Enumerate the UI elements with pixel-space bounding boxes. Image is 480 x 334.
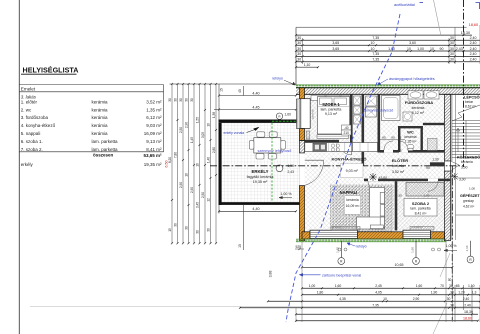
svg-text:gardrób: gardrób [311, 109, 315, 119]
wall bathroom left [378, 94, 381, 152]
svg-text:lefolyó: lefolyó [357, 245, 367, 249]
szoba2 radiator [428, 139, 438, 151]
thin leader diagonal top right [434, 0, 442, 36]
svg-text:7,35: 7,35 [372, 52, 379, 56]
svg-text:10,65: 10,65 [395, 263, 404, 267]
table frame [19, 84, 163, 86]
balcony chair right [281, 141, 286, 150]
svg-text:3,52 m²: 3,52 m² [392, 170, 405, 174]
szoba1 bench [317, 135, 349, 139]
svg-text:7,35: 7,35 [372, 304, 379, 308]
svg-text:1,60: 1,60 [416, 284, 423, 288]
svg-text:10: 10 [383, 297, 387, 301]
svg-text:ásványgyapot hőszigetelés: ásványgyapot hőszigetelés [389, 77, 435, 81]
svg-text:18,30: 18,30 [464, 310, 473, 314]
svg-text:8,41 m²: 8,41 m² [146, 147, 162, 152]
kitchen hob [331, 144, 334, 147]
bathroom sinks [408, 91, 423, 99]
svg-text:2,40: 2,40 [470, 36, 477, 40]
wall szoba1 bottom / kitchen top [305, 140, 340, 143]
svg-text:4,05: 4,05 [375, 291, 382, 295]
door gap nappali [368, 179, 378, 182]
svg-text:15: 15 [220, 88, 224, 92]
svg-text:30: 30 [168, 98, 172, 102]
svg-text:85: 85 [382, 136, 386, 140]
svg-text:1,00 %: 1,00 % [446, 244, 457, 248]
bottom dim line y=301.2 [268, 300, 480, 302]
balcony bottom edge [219, 202, 300, 205]
shaft strip walls [362, 94, 365, 166]
szoba1 wardrobe at wall [301, 99, 310, 129]
kitchen balcony door leaf+arc [305, 159, 324, 161]
svg-text:kerámia: kerámia [92, 131, 109, 136]
svg-text:Emelet: Emelet [21, 87, 36, 92]
wall nappali|szoba2 [395, 181, 398, 230]
svg-text:30: 30 [450, 52, 454, 56]
left cluster mid ticks [182, 159, 184, 161]
svg-text:7,80: 7,80 [174, 152, 178, 158]
svg-text:HELYISÉGLISTA: HELYISÉGLISTA [23, 65, 79, 74]
balcony top dim 4,40 [219, 95, 296, 97]
svg-text:30: 30 [297, 52, 301, 56]
svg-text:NAPPALI: NAPPALI [340, 190, 358, 195]
svg-text:65: 65 [456, 284, 460, 288]
balcony top drain circle [276, 113, 282, 119]
balcony floor [222, 123, 300, 203]
top dim extension verticals [295, 27, 297, 84]
left wall door kitchen-balcony gap [300, 153, 305, 186]
svg-text:greslap: greslap [463, 199, 474, 203]
svg-text:9,13 m²: 9,13 m² [325, 112, 338, 116]
svg-text:kerámia: kerámia [92, 115, 109, 120]
svg-text:2,43: 2,43 [288, 170, 295, 174]
svg-text:1,3: 1,3 [472, 291, 477, 295]
svg-text:3,52 m²: 3,52 m² [146, 99, 162, 104]
svg-text:70: 70 [440, 284, 444, 288]
balcony top wall [219, 120, 303, 123]
svg-text:1,10: 1,10 [304, 63, 311, 67]
svg-text:ELŐTÉR: ELŐTÉR [392, 158, 408, 163]
svg-text:3,00: 3,00 [459, 178, 466, 182]
svg-text:3. fürdőszoba: 3. fürdőszoba [21, 115, 49, 120]
svg-text:1. előtér: 1. előtér [21, 99, 38, 104]
nappali radiator [332, 227, 360, 231]
svg-text:1,60: 1,60 [285, 113, 292, 117]
svg-text:30: 30 [179, 98, 183, 102]
svg-text:19,35 m²: 19,35 m² [144, 162, 162, 167]
svg-text:90: 90 [440, 47, 444, 51]
kitchen counter extension right [353, 143, 378, 152]
svg-text:1,40: 1,40 [207, 157, 211, 163]
svg-text:15: 15 [238, 244, 242, 248]
szoba2 bed [406, 183, 444, 197]
right wall entry door gap [445, 161, 451, 171]
svg-text:2,80: 2,80 [212, 147, 216, 153]
svg-text:30: 30 [185, 226, 189, 230]
wall bathroom bottom right part [423, 123, 445, 125]
top insulation green band [296, 85, 480, 88]
svg-text:1,10: 1,10 [468, 284, 475, 288]
svg-text:GÉPÉSZET: GÉPÉSZET [460, 193, 480, 198]
vertical dash-dot boundary lower [451, 166, 453, 320]
svg-text:erkély vonala: erkély vonala [224, 131, 245, 135]
svg-text:10: 10 [371, 47, 375, 51]
parquet floor szoba2 [398, 181, 445, 230]
svg-text:15: 15 [168, 228, 172, 232]
left wall window szoba1-balcony [297, 99, 302, 129]
bottom dim 18,60 red [296, 320, 478, 322]
blue corner glyph left [420, 2, 424, 4]
svg-text:2,90: 2,90 [179, 182, 183, 188]
svg-text:10: 10 [430, 47, 434, 51]
rain pipe markers [340, 241, 342, 258]
svg-text:1,35 m²: 1,35 m² [146, 107, 162, 112]
wall szoba1 right [350, 94, 353, 142]
bottom exterior wall piers (brick) [302, 232, 310, 239]
svg-text:16,09 m²: 16,09 m² [144, 131, 162, 136]
svg-text:szennyvíz lefolyócső: szennyvíz lefolyócső [363, 109, 393, 113]
svg-text:FÜRDŐSZOBA: FÜRDŐSZOBA [405, 100, 433, 105]
svg-text:30: 30 [450, 58, 454, 62]
svg-text:1,60: 1,60 [410, 247, 414, 253]
svg-text:1,45: 1,45 [190, 137, 194, 143]
svg-text:3,88: 3,88 [269, 271, 273, 278]
top dim line y=56.4 [296, 55, 480, 57]
svg-text:1,00 %: 1,00 % [280, 192, 292, 196]
svg-text:10: 10 [371, 41, 375, 45]
svg-text:2,90: 2,90 [185, 122, 189, 128]
svg-text:210: 210 [344, 131, 350, 135]
svg-text:3,45: 3,45 [196, 202, 200, 208]
svg-text:beton: beton [465, 100, 473, 104]
balcony chairs top [257, 132, 265, 137]
svg-text:4,35: 4,35 [339, 297, 346, 301]
svg-text:kerámia: kerámia [92, 123, 109, 128]
svg-text:kerámia: kerámia [346, 198, 359, 202]
wc bowl [407, 144, 414, 149]
svg-text:10: 10 [407, 47, 411, 51]
level mark +3,00 nappali [369, 173, 377, 181]
svg-text:1,38: 1,38 [212, 112, 216, 118]
left dim cluster horizontal extension [170, 83, 297, 85]
thin diagonal wisp lines right [440, 253, 450, 277]
svg-text:KÖZLEKEDŐ: KÖZLEKEDŐ [457, 155, 480, 160]
svg-text:1,60: 1,60 [335, 284, 342, 288]
svg-text:1,60: 1,60 [388, 47, 395, 51]
svg-text:1,90: 1,90 [431, 291, 438, 295]
washing machine [403, 112, 412, 121]
wall wc left/right [398, 126, 400, 152]
svg-text:2,40: 2,40 [470, 47, 477, 51]
svg-text:1,80: 1,80 [317, 291, 324, 295]
right wall [445, 94, 451, 161]
balcony top dim 4,45 [214, 109, 296, 111]
svg-text:1,65: 1,65 [349, 101, 353, 107]
door gap szoba2 [428, 179, 438, 182]
svg-text:SZOBA 1: SZOBA 1 [322, 102, 340, 107]
svg-text:3,65: 3,65 [332, 41, 339, 45]
balcony table [254, 138, 281, 153]
shaft boxes [354, 96, 361, 105]
top dim line y=51.0 [296, 50, 480, 52]
svg-text:5. nappali: 5. nappali [21, 131, 41, 136]
svg-text:lam. parketta: lam. parketta [92, 139, 119, 144]
svg-text:lam. parketta: lam. parketta [321, 107, 342, 111]
svg-text:90: 90 [426, 166, 430, 170]
svg-text:2,43: 2,43 [456, 47, 463, 51]
balcony drain circle [276, 165, 283, 172]
balcony green dashed line on top wall [272, 120, 302, 122]
long faint ground line [30, 306, 480, 308]
bottom dim line y=294.7 [302, 294, 480, 296]
svg-text:szennyvíz lefolyócső: szennyvíz lefolyócső [258, 149, 292, 153]
svg-text:lefolyó: lefolyó [273, 76, 283, 80]
wall wc top [398, 126, 423, 128]
svg-text:kerámia: kerámia [392, 164, 404, 168]
svg-text:30: 30 [185, 98, 189, 102]
svg-text:53,65 m²: 53,65 m² [143, 153, 162, 158]
bottom dim line y=288.2 [302, 287, 480, 289]
svg-text:fagyálló kerámia: fagyálló kerámia [247, 175, 275, 179]
blue dashed drain line [286, 14, 400, 322]
szoba1 door arc [339, 142, 352, 155]
svg-text:7. szoba 2.: 7. szoba 2. [21, 147, 43, 152]
horizontal dash-dot section line [210, 165, 464, 167]
svg-text:10: 10 [196, 163, 200, 167]
svg-text:1,00: 1,00 [417, 47, 424, 51]
svg-text:3,60: 3,60 [409, 41, 416, 45]
bathroom tub [382, 96, 401, 121]
svg-text:90: 90 [391, 136, 395, 140]
table sum line [19, 151, 163, 153]
szoba2 label box [404, 199, 437, 217]
kitchen counter [305, 143, 352, 152]
top dim line y=45.2 [296, 44, 480, 46]
svg-text:SZOBA 2: SZOBA 2 [412, 201, 430, 206]
svg-text:2,45: 2,45 [375, 284, 382, 288]
svg-text:lam. parketta: lam. parketta [410, 207, 430, 211]
szoba1 radiator [306, 131, 310, 139]
svg-text:LÉPCSŐH.: LÉPCSŐH. [464, 95, 480, 100]
staircase break line [452, 105, 480, 121]
balcony bottom extension vertical [242, 205, 244, 250]
bottom extension verticals [301, 241, 303, 322]
svg-text:1,20: 1,20 [458, 291, 465, 295]
top dim line 18,60 [296, 26, 467, 28]
parquet floor szoba1 [305, 94, 351, 142]
bottom wall window szoba2 [403, 230, 431, 238]
svg-text:30: 30 [174, 223, 178, 227]
svg-text:10: 10 [185, 173, 189, 177]
svg-text:+3,00: +3,00 [379, 176, 388, 180]
svg-text:acélkorláttal: acélkorláttal [394, 2, 415, 7]
balcony bottom dim 4,40 [219, 210, 296, 212]
left wall hatched pillar [300, 141, 305, 154]
svg-text:lam. parketta: lam. parketta [92, 147, 119, 152]
svg-text:4,62 m²: 4,62 m² [463, 205, 475, 209]
svg-text:4,40: 4,40 [252, 207, 259, 211]
svg-text:30: 30 [196, 230, 200, 234]
svg-text:2,50: 2,50 [201, 192, 205, 198]
page left border line [18, 0, 20, 334]
balcony left wall [219, 123, 222, 205]
svg-text:30: 30 [450, 304, 454, 308]
svg-text:6,12 m²: 6,12 m² [412, 111, 425, 115]
svg-text:30: 30 [450, 291, 454, 295]
level mark +3,00 kozlekedo [451, 173, 458, 180]
svg-text:4,40: 4,40 [252, 91, 259, 95]
bottom dim line y=307.7 [240, 307, 480, 309]
svg-text:18,30: 18,30 [461, 31, 470, 35]
top exterior wall [296, 88, 480, 95]
svg-text:2,40: 2,40 [470, 52, 477, 56]
svg-text:30: 30 [297, 36, 301, 40]
kitchen sink dark unit [313, 143, 327, 151]
svg-text:5: 5 [400, 136, 402, 140]
staircase side wall line [451, 94, 453, 161]
balcony green dashed vertical line [271, 123, 273, 203]
svg-text:zártsorú beépítési vonal: zártsorú beépítési vonal [322, 273, 361, 277]
bathroom left cabinets/shafts [366, 96, 377, 106]
svg-text:4,45: 4,45 [252, 105, 259, 109]
svg-text:12: 12 [207, 198, 211, 202]
nappali screed stipple [330, 185, 394, 232]
svg-text:8,62 m²: 8,62 m² [465, 105, 477, 109]
svg-text:19,35 m²: 19,35 m² [253, 180, 268, 184]
left dim cluster verticals [171, 84, 173, 243]
svg-text:16,09 m²: 16,09 m² [346, 204, 361, 208]
svg-text:összesen: összesen [93, 153, 114, 158]
balcony chairs bottom [256, 154, 264, 159]
sofa back cushions [380, 192, 384, 203]
svg-text:1,30: 1,30 [432, 158, 439, 162]
door gap wc [399, 150, 408, 153]
staircase walk line [456, 128, 459, 152]
svg-text:1,10: 1,10 [465, 245, 469, 251]
svg-text:15: 15 [398, 149, 402, 153]
svg-text:18,60: 18,60 [463, 317, 472, 321]
short dim stub below block [296, 66, 318, 68]
small drain circle pairs [338, 248, 341, 251]
svg-text:9,03 m²: 9,03 m² [146, 123, 162, 128]
svg-text:30: 30 [398, 194, 402, 198]
svg-text:2,50: 2,50 [179, 127, 183, 133]
svg-text:2,40: 2,40 [470, 41, 477, 45]
svg-text:1,00: 1,00 [469, 187, 475, 191]
svg-text:erkély: erkély [21, 162, 34, 167]
gepeszet room lines [455, 94, 457, 240]
wall elore/nappali-szoba2 [364, 179, 451, 182]
bottom wall window nappali [310, 230, 358, 238]
dim 10,65 [302, 266, 452, 268]
svg-text:2,40: 2,40 [470, 58, 477, 62]
svg-text:30: 30 [447, 297, 451, 301]
staircase treads [452, 120, 480, 122]
svg-text:kerámia: kerámia [92, 99, 109, 104]
svg-text:kerámia: kerámia [461, 160, 473, 164]
svg-text:30: 30 [297, 47, 301, 51]
svg-text:18,60: 18,60 [469, 23, 478, 27]
szoba2 radiator below window [410, 227, 434, 231]
svg-text:2,90: 2,90 [190, 187, 194, 193]
sofa L-shape [370, 188, 385, 230]
svg-text:30: 30 [450, 41, 454, 45]
balcony chair left [249, 141, 254, 150]
svg-text:kerámia: kerámia [412, 106, 425, 110]
svg-text:30: 30 [297, 58, 301, 62]
svg-text:10: 10 [207, 123, 211, 127]
wall eloter/entry [430, 162, 445, 166]
top dim line 18,30 [296, 34, 472, 36]
left brick wall segments [300, 88, 305, 99]
szoba1 wardrobe row [311, 95, 325, 100]
svg-text:30: 30 [450, 47, 454, 51]
svg-text:3,00: 3,00 [461, 166, 468, 170]
svg-text:8,41 m²: 8,41 m² [415, 212, 428, 216]
blue corner glyph right [476, 3, 480, 10]
door gap bathroom [384, 150, 393, 153]
svg-text:2. wc: 2. wc [21, 107, 32, 112]
svg-text:1,55: 1,55 [196, 117, 200, 123]
svg-text:9,13 m²: 9,13 m² [146, 139, 162, 144]
szoba1 bed [318, 97, 350, 135]
svg-text:45: 45 [238, 89, 242, 93]
svg-text:30: 30 [174, 98, 178, 102]
svg-text:4. konyha-étkező: 4. konyha-étkező [21, 123, 56, 128]
svg-text:3,65: 3,65 [332, 47, 339, 51]
balcony corner extension verticals [218, 84, 220, 120]
svg-text:kerámia: kerámia [92, 107, 109, 112]
svg-text:ERKÉLY: ERKÉLY [251, 169, 268, 174]
svg-text:2,40: 2,40 [464, 304, 471, 308]
svg-text:KONYHA-ÉTKEZŐ: KONYHA-ÉTKEZŐ [332, 157, 367, 162]
svg-text:6. szoba 1.: 6. szoba 1. [21, 139, 43, 144]
svg-text:6,12 m²: 6,12 m² [146, 115, 162, 120]
svg-text:-40: -40 [344, 126, 349, 130]
svg-text:WC: WC [407, 130, 414, 135]
svg-text:30: 30 [190, 98, 194, 102]
bottom dim 18,30 [296, 313, 478, 315]
top dim line y=40.2 [296, 39, 480, 41]
top dim line y=61.8 [296, 61, 480, 63]
wall bathroom/wc bottom + elote top [380, 150, 445, 153]
door height boxes 40/210 [342, 125, 352, 130]
bottom insulation green band [296, 239, 447, 242]
svg-text:2,90: 2,90 [413, 297, 420, 301]
svg-text:3,05: 3,05 [201, 132, 205, 138]
svg-text:9,03 m²: 9,03 m² [346, 169, 359, 173]
svg-text:1,60: 1,60 [336, 247, 340, 253]
svg-text:1,00: 1,00 [309, 284, 316, 288]
svg-text:8,20: 8,20 [168, 157, 172, 163]
svg-text:7,35: 7,35 [372, 58, 379, 62]
svg-text:30: 30 [450, 36, 454, 40]
floor ceramic areas [305, 94, 445, 232]
svg-text:30: 30 [448, 278, 452, 282]
svg-text:30: 30 [297, 41, 301, 45]
wc dim labels 85 90 5 [380, 139, 405, 141]
svg-text:1,35 m²: 1,35 m² [405, 139, 417, 143]
svg-text:7,35: 7,35 [372, 36, 379, 40]
svg-text:30: 30 [207, 228, 211, 232]
vertical dash-dot boundary upper [463, 0, 465, 167]
